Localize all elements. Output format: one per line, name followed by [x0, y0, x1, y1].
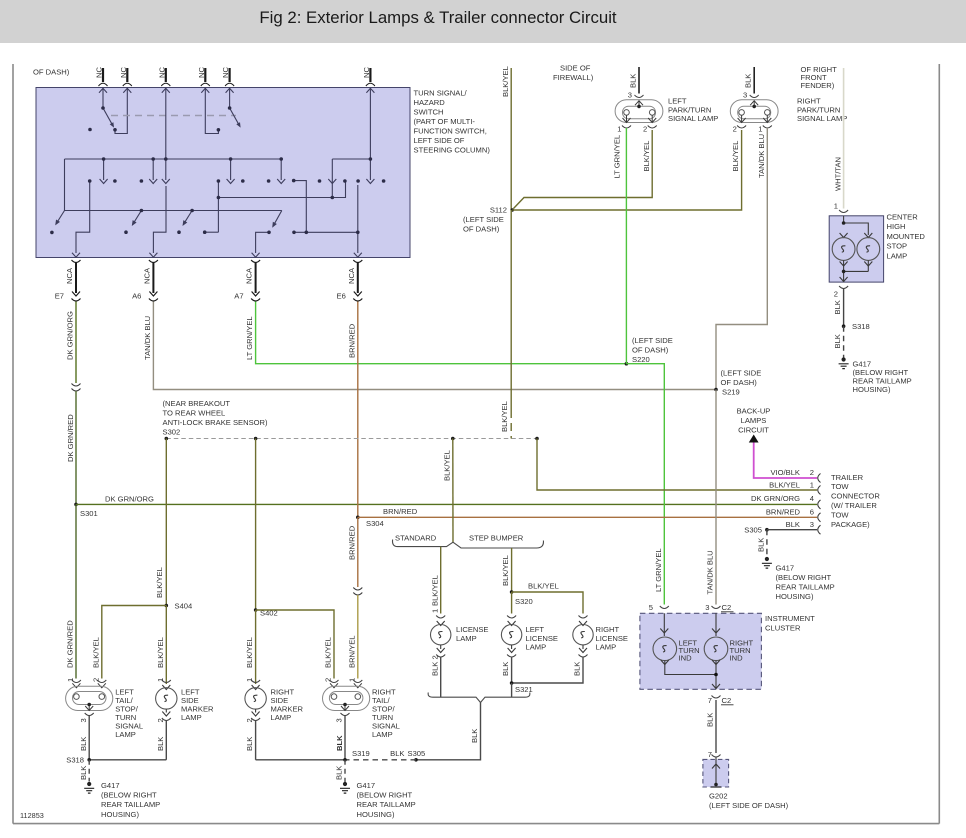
right park/turn signal lamp: [730, 95, 778, 128]
svg-text:HOUSING): HOUSING): [101, 810, 139, 819]
svg-text:OF DASH): OF DASH): [463, 225, 500, 234]
switch interior wiring: [56, 88, 370, 253]
splice S305 right: [765, 528, 769, 532]
bus drop 2: [152, 159, 154, 180]
connector A6: [149, 260, 158, 301]
wire stub6: [369, 88, 371, 180]
svg-text:G417: G417: [776, 564, 795, 573]
svg-text:BLK/YEL: BLK/YEL: [501, 555, 510, 586]
wire LT GRN/YEL left lamp pin1: [625, 128, 627, 364]
svg-text:HAZARD: HAZARD: [414, 98, 446, 107]
wire BLK/YEL S402 to right tail pin2: [256, 610, 334, 679]
lever arrowheads: [53, 122, 277, 229]
NC terminal 6: [366, 68, 375, 93]
svg-text:INSTRUMENT: INSTRUMENT: [765, 614, 815, 623]
svg-text:BLK: BLK: [390, 749, 404, 758]
wire LT GRN/YEL S220 to cluster: [626, 364, 664, 605]
wire contact link: [205, 231, 219, 233]
svg-text:S320: S320: [515, 597, 533, 606]
right side marker lamp: [245, 680, 266, 721]
page border right: [938, 64, 940, 824]
svg-text:2: 2: [245, 718, 254, 722]
wire BLK marker to S319: [256, 759, 345, 761]
page border left: [12, 64, 14, 824]
svg-text:TAN/DK BLU: TAN/DK BLU: [757, 134, 766, 178]
NC labels: [95, 67, 371, 78]
bus drop 5: [280, 159, 282, 180]
svg-text:G202: G202: [709, 792, 728, 801]
wire BLK/YEL from firewall: [510, 68, 512, 210]
wire BLK/YEL S302 to S404: [165, 439, 167, 606]
svg-text:BLK/YEL: BLK/YEL: [769, 481, 800, 490]
wire BLK dashed to G417: [766, 530, 768, 557]
svg-text:2: 2: [91, 678, 100, 682]
wire BRN/YEL to right tail lamp: [357, 595, 359, 679]
svg-text:CENTER: CENTER: [887, 213, 919, 222]
wire BLK dashed S305 to S319: [345, 759, 416, 761]
wire BLK/YEL S112 down dashed: [510, 210, 512, 439]
splice S318 left: [89, 759, 166, 761]
right turn ind bulb: [715, 613, 717, 636]
svg-text:S112: S112: [490, 206, 507, 215]
wire exit A6: [153, 186, 166, 253]
svg-text:5: 5: [649, 603, 653, 612]
wire BLK/YEL S112 to right lamp pin2: [512, 130, 741, 210]
wire BLK left park lamp pin3: [638, 67, 640, 94]
wire stub1: [102, 88, 104, 108]
svg-text:BLK: BLK: [833, 300, 842, 314]
svg-text:FENDER): FENDER): [801, 81, 835, 90]
svg-text:LEFT SIDE OF: LEFT SIDE OF: [414, 136, 465, 145]
svg-text:BLK: BLK: [833, 334, 842, 348]
bus drop 3: [165, 159, 167, 180]
svg-text:HOUSING): HOUSING): [776, 592, 814, 601]
svg-text:S404: S404: [175, 602, 193, 611]
connector row E7 A6 A7 E6: [72, 260, 363, 301]
wire BLK right license to S321: [512, 657, 583, 683]
wire WHT/TAN: [843, 68, 845, 209]
svg-text:SIGNAL LAMP: SIGNAL LAMP: [797, 114, 847, 123]
svg-text:BLK/YEL: BLK/YEL: [91, 637, 100, 668]
svg-text:LAMPS: LAMPS: [741, 416, 767, 425]
svg-text:NCA: NCA: [65, 267, 74, 284]
left side marker lamp: [156, 680, 177, 721]
svg-text:MOUNTED: MOUNTED: [887, 232, 926, 241]
svg-text:C2: C2: [722, 603, 732, 612]
svg-text:S301: S301: [80, 509, 98, 518]
svg-text:REAR TAILLAMP: REAR TAILLAMP: [101, 800, 160, 809]
svg-text:LICENSE: LICENSE: [456, 625, 489, 634]
svg-text:E7: E7: [55, 292, 64, 301]
svg-text:C2: C2: [722, 696, 732, 705]
splice S321: [510, 681, 514, 685]
svg-text:2: 2: [810, 468, 814, 477]
svg-text:S304: S304: [366, 519, 384, 528]
svg-text:TRAILER: TRAILER: [831, 473, 864, 482]
svg-text:BLK/YEL: BLK/YEL: [155, 567, 164, 598]
instrument cluster: [640, 603, 762, 689]
svg-text:1: 1: [430, 609, 439, 613]
wire BLK/YEL standard branch: [440, 547, 442, 614]
svg-text:PARK/TURN: PARK/TURN: [797, 105, 840, 114]
svg-text:S220: S220: [632, 355, 650, 364]
svg-text:BLK/YEL: BLK/YEL: [430, 575, 439, 606]
bus drop 1: [103, 159, 105, 180]
wire TAN/DK BLU right lamp pin1 to S219: [716, 128, 767, 390]
svg-text:REAR TAILLAMP: REAR TAILLAMP: [357, 800, 416, 809]
svg-text:OF DASH): OF DASH): [632, 346, 669, 355]
svg-text:S318: S318: [852, 322, 870, 331]
svg-text:BLK: BLK: [245, 737, 254, 751]
svg-text:(BELOW RIGHT: (BELOW RIGHT: [357, 791, 413, 800]
svg-text:(LEFT SIDE OF DASH): (LEFT SIDE OF DASH): [709, 801, 789, 810]
svg-text:BLK: BLK: [786, 520, 800, 529]
svg-text:BLK: BLK: [757, 538, 766, 552]
svg-text:(LEFT SIDE: (LEFT SIDE: [632, 336, 673, 345]
svg-text:DK GRN/ORG: DK GRN/ORG: [105, 495, 154, 504]
svg-text:WHT/TAN: WHT/TAN: [833, 157, 842, 191]
splice S320: [510, 590, 514, 594]
svg-text:BLK/YEL: BLK/YEL: [501, 66, 510, 97]
connector E6: [353, 260, 362, 301]
svg-text:CIRCUIT: CIRCUIT: [738, 426, 769, 435]
wire VIO/BLK: [754, 443, 817, 479]
lower lever a: [56, 211, 65, 225]
svg-text:LAMP: LAMP: [526, 643, 547, 652]
wire BLK left license to S321: [511, 657, 513, 683]
svg-text:HOUSING): HOUSING): [853, 385, 891, 394]
wire BLK left marker pin2: [165, 721, 167, 760]
svg-text:DK GRN/ORG: DK GRN/ORG: [66, 311, 75, 360]
svg-text:BLK: BLK: [629, 74, 638, 88]
svg-text:1: 1: [834, 202, 838, 211]
splice S302 dashed breakout: [166, 438, 537, 440]
svg-text:3: 3: [628, 91, 632, 100]
svg-text:STOP: STOP: [887, 242, 908, 251]
svg-text:BACK-UP: BACK-UP: [737, 407, 771, 416]
wire BLK 2 below license lamp: [440, 657, 442, 697]
svg-text:NCA: NCA: [347, 267, 356, 284]
svg-text:BLK: BLK: [470, 729, 479, 743]
svg-text:LAMP: LAMP: [596, 643, 617, 652]
wire BLK/YEL S112 to left lamp pin2: [514, 130, 653, 209]
left park/turn signal lamp: [615, 95, 663, 128]
svg-text:112853: 112853: [20, 811, 44, 820]
svg-text:NCA: NCA: [245, 267, 254, 284]
svg-text:G417: G417: [853, 359, 872, 368]
svg-text:SIGNAL LAMP: SIGNAL LAMP: [668, 114, 718, 123]
svg-text:BLK/YEL: BLK/YEL: [324, 637, 333, 668]
svg-text:TURN SIGNAL/: TURN SIGNAL/: [414, 89, 468, 98]
svg-text:BLK: BLK: [79, 766, 88, 780]
svg-text:(LEFT SIDE: (LEFT SIDE: [721, 369, 762, 378]
svg-text:LEFT: LEFT: [668, 97, 687, 106]
svg-text:S305: S305: [408, 749, 426, 758]
svg-text:DK GRN/RED: DK GRN/RED: [66, 620, 75, 668]
svg-text:3: 3: [743, 91, 747, 100]
bumper option split: [393, 540, 544, 549]
wire E7 DK GRN/ORG: [75, 302, 77, 384]
svg-text:BLK: BLK: [156, 737, 165, 751]
wire BLK/YEL S402 to right marker: [255, 610, 257, 684]
svg-text:BLK/YEL: BLK/YEL: [156, 637, 165, 668]
wire BLK right tail pin3 to S319: [344, 716, 346, 760]
svg-text:BLK: BLK: [335, 766, 344, 780]
lower lever d: [273, 211, 282, 227]
wire contact L2: [205, 88, 218, 134]
svg-text:1: 1: [810, 481, 814, 490]
connector E7: [72, 260, 81, 301]
wire TAN/DK BLU trunk to cluster: [715, 390, 717, 605]
lower lever b: [133, 211, 142, 225]
inline connector on E6 wire: [353, 588, 362, 596]
svg-text:1: 1: [347, 678, 356, 682]
svg-text:BRN/RED: BRN/RED: [347, 525, 356, 560]
svg-text:3: 3: [79, 718, 88, 722]
svg-text:NC: NC: [221, 67, 230, 78]
svg-text:LAMP: LAMP: [372, 730, 393, 739]
svg-text:LAMP: LAMP: [115, 730, 136, 739]
svg-text:BLK: BLK: [573, 662, 582, 676]
svg-text:7: 7: [708, 696, 712, 705]
svg-text:STEP BUMPER: STEP BUMPER: [469, 534, 524, 543]
wire link E6 top: [294, 181, 307, 233]
wire bus to lower rail: [65, 159, 282, 211]
svg-text:NC: NC: [157, 67, 166, 78]
arrow back-up circuit: [749, 435, 759, 443]
splice S318 right: [842, 324, 846, 328]
wire BLK/YEL S302 to bumper options: [452, 439, 454, 543]
svg-text:(BELOW RIGHT: (BELOW RIGHT: [776, 573, 832, 582]
wire contact L1: [115, 88, 127, 134]
svg-text:(NEAR BREAKOUT: (NEAR BREAKOUT: [163, 399, 231, 408]
svg-text:2: 2: [733, 125, 737, 134]
svg-text:TO REAR WHEEL: TO REAR WHEEL: [163, 409, 226, 418]
NC terminal 3: [161, 68, 170, 93]
splice S219: [714, 388, 718, 392]
wire DK GRN/ORG horizontal to trailer pin 4: [76, 503, 817, 505]
switch lever L2: [230, 108, 240, 125]
right tail/stop/turn signal lamp: [323, 680, 370, 716]
svg-text:BRN/RED: BRN/RED: [383, 507, 418, 516]
svg-text:G417: G417: [357, 781, 376, 790]
svg-text:S318: S318: [66, 755, 84, 764]
svg-text:(LEFT SIDE: (LEFT SIDE: [463, 215, 504, 224]
svg-text:BLK/YEL: BLK/YEL: [528, 582, 559, 591]
switch lever L1: [103, 108, 113, 125]
svg-text:2: 2: [156, 718, 165, 722]
svg-text:CLUSTER: CLUSTER: [765, 624, 801, 633]
wire BLK/YEL to trailer pin 1: [537, 439, 817, 491]
svg-text:NC: NC: [95, 67, 104, 78]
svg-text:HOUSING): HOUSING): [357, 810, 395, 819]
svg-text:(PART OF MULTI-: (PART OF MULTI-: [414, 117, 476, 126]
svg-text:TAN/DK BLU: TAN/DK BLU: [706, 550, 715, 594]
svg-text:LEFT: LEFT: [526, 625, 545, 634]
svg-text:LAMP: LAMP: [887, 251, 908, 260]
svg-text:OF DASH): OF DASH): [33, 68, 70, 77]
svg-text:E6: E6: [337, 292, 346, 301]
splice S319: [343, 758, 347, 762]
svg-text:S302: S302: [163, 428, 181, 437]
svg-text:IND: IND: [730, 654, 744, 663]
svg-text:1: 1: [66, 678, 75, 682]
svg-text:LICENSE: LICENSE: [526, 634, 559, 643]
wire BLK left tail pin3 to S318: [88, 716, 90, 760]
splice S304: [356, 516, 360, 520]
svg-text:6: 6: [810, 508, 814, 517]
svg-text:LT GRN/YEL: LT GRN/YEL: [245, 316, 254, 360]
svg-text:BLK: BLK: [706, 713, 715, 727]
svg-text:RIGHT: RIGHT: [797, 97, 821, 106]
wire BLK right marker pin2: [255, 721, 257, 760]
svg-text:2: 2: [834, 290, 838, 299]
svg-text:ANTI-LOCK BRAKE SENSOR): ANTI-LOCK BRAKE SENSOR): [163, 418, 269, 427]
center high mounted stop lamp: [829, 216, 883, 282]
ground G417 chmsl: [839, 358, 849, 369]
turn signal / hazard switch box: [36, 88, 410, 258]
svg-text:LICENSE: LICENSE: [596, 634, 629, 643]
svg-text:1: 1: [245, 678, 254, 682]
wire exit E7: [76, 181, 90, 253]
svg-text:A6: A6: [132, 292, 141, 301]
svg-text:DK GRN/ORG: DK GRN/ORG: [751, 494, 800, 503]
svg-text:NC: NC: [119, 67, 128, 78]
wire DK GRN/RED lower: [75, 504, 77, 678]
svg-text:BLK/YEL: BLK/YEL: [642, 141, 651, 172]
wire BLK dashed to G417: [843, 326, 845, 357]
svg-text:RIGHT: RIGHT: [596, 625, 620, 634]
wire BLK S321 to merge: [511, 683, 513, 697]
wire BRN/RED horizontal to trailer pin 6: [358, 516, 817, 518]
wire BLK/YEL S404 to left tail pin2: [102, 606, 167, 679]
svg-text:HIGH: HIGH: [887, 222, 906, 231]
wire BLK to trailer pin 3: [767, 529, 817, 531]
svg-text:FIREWALL): FIREWALL): [553, 73, 594, 82]
svg-text:PACKAGE): PACKAGE): [831, 520, 870, 529]
wire BLK dashed to G417 left: [88, 760, 90, 782]
svg-text:3: 3: [335, 718, 344, 722]
wire BLK right park lamp pin3: [753, 67, 755, 94]
wire BLK merge to S305: [416, 703, 481, 760]
connector labels: [55, 267, 356, 300]
wire BLK/YEL step bumper branch: [511, 548, 513, 592]
ground G417 s305: [762, 557, 772, 568]
svg-text:BLK/YEL: BLK/YEL: [500, 401, 509, 432]
wire exit E6: [294, 185, 358, 253]
svg-text:A7: A7: [234, 292, 243, 301]
svg-text:BLK: BLK: [335, 735, 344, 751]
bumper option merge bracket: [428, 693, 530, 703]
ground G417 left: [84, 782, 94, 793]
svg-text:S305: S305: [744, 526, 762, 535]
right license lamp: [573, 616, 593, 658]
wire stub3: [165, 88, 167, 159]
svg-text:TOW: TOW: [831, 510, 849, 519]
license lamp: [431, 616, 451, 658]
svg-text:NCA: NCA: [142, 267, 151, 284]
svg-text:4: 4: [810, 494, 814, 503]
svg-text:1: 1: [617, 125, 621, 134]
wire stub5: [229, 88, 231, 108]
svg-text:STANDARD: STANDARD: [395, 534, 437, 543]
svg-text:LAMP: LAMP: [181, 713, 202, 722]
splice S305 bottom: [414, 758, 418, 762]
svg-text:DK GRN/RED: DK GRN/RED: [66, 414, 75, 462]
NC terminal 5: [225, 68, 234, 93]
mechanical link dashed: [111, 115, 236, 117]
svg-text:IND: IND: [679, 654, 693, 663]
NC terminal 1: [99, 68, 108, 93]
svg-text:LT GRN/YEL: LT GRN/YEL: [612, 135, 621, 179]
svg-text:TAN/DK BLU: TAN/DK BLU: [143, 316, 152, 360]
ground G417 right: [340, 782, 350, 793]
svg-text:BLK: BLK: [501, 662, 510, 676]
NC terminal 2: [123, 68, 132, 93]
svg-text:REAR TAILLAMP: REAR TAILLAMP: [776, 583, 835, 592]
wire BLK dashed to G417 right: [344, 760, 346, 782]
wire BLK/YEL S302 to S402: [255, 439, 257, 611]
lower lever c: [183, 211, 192, 225]
svg-text:G417: G417: [101, 781, 120, 790]
svg-text:7: 7: [708, 750, 712, 759]
svg-text:BLK: BLK: [79, 737, 88, 751]
inline connector on E7 wire: [72, 384, 81, 392]
wire BLK/YEL S320 to left license: [511, 592, 513, 614]
left tail/stop/turn signal lamp: [66, 680, 113, 716]
wire exit A7: [256, 232, 269, 253]
svg-text:LAMP: LAMP: [271, 713, 292, 722]
interior junction dots: [50, 106, 385, 234]
left license lamp: [501, 616, 521, 658]
svg-text:NC: NC: [362, 67, 371, 78]
splice S404: [165, 604, 169, 608]
wire BLK/YEL S320 to right license: [512, 592, 583, 614]
svg-text:BRN/RED: BRN/RED: [766, 508, 801, 517]
interior chevrons: [72, 179, 374, 257]
svg-text:BLK 2: BLK 2: [430, 655, 439, 676]
bus drop 6: [331, 159, 333, 198]
splice S402: [254, 608, 258, 612]
left turn ind bulb: [663, 613, 665, 636]
svg-text:BRN/YEL: BRN/YEL: [347, 636, 356, 669]
svg-text:LAMP: LAMP: [456, 634, 477, 643]
svg-text:(BELOW RIGHT: (BELOW RIGHT: [101, 791, 157, 800]
svg-text:FUNCTION SWITCH,: FUNCTION SWITCH,: [414, 127, 487, 136]
wire E6 BRN/RED: [357, 302, 359, 518]
title bar: [0, 0, 966, 43]
splice S301: [74, 503, 78, 507]
svg-text:S219: S219: [722, 388, 740, 397]
wire row link: [218, 181, 345, 232]
svg-text:SIDE OF: SIDE OF: [560, 64, 591, 73]
svg-text:NC: NC: [197, 67, 206, 78]
wire BLK/YEL S404 to left marker: [165, 606, 167, 685]
svg-text:LT GRN/YEL: LT GRN/YEL: [654, 548, 663, 592]
svg-text:OF DASH): OF DASH): [721, 378, 758, 387]
svg-text:BRN/RED: BRN/RED: [347, 323, 356, 358]
svg-text:3: 3: [810, 520, 814, 529]
svg-text:PARK/TURN: PARK/TURN: [668, 105, 711, 114]
bus drop 4: [230, 159, 232, 180]
NC terminal 4: [201, 68, 210, 93]
svg-text:2: 2: [324, 678, 333, 682]
switch label text: [414, 89, 491, 155]
splice S112: [510, 208, 514, 212]
page border bottom: [13, 823, 939, 825]
wire BLK below CHMSL: [839, 286, 848, 289]
ground G202 box: [703, 757, 729, 787]
